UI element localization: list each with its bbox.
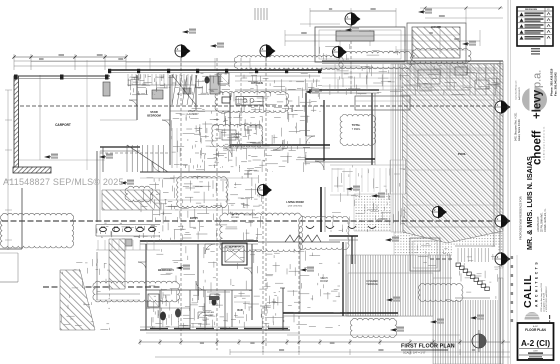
svg-text:BAR: BAR — [237, 309, 242, 312]
detail kitchen — [243, 97, 245, 101]
svg-text:BBQ: BBQ — [374, 195, 379, 198]
kitchen island with cooktop — [236, 97, 263, 106]
svg-text:p.a.: p.a. — [532, 70, 544, 88]
svg-text:(20ft CEILING): (20ft CEILING) — [288, 205, 303, 208]
vertical grid dashed lines — [180, 58, 182, 340]
cloud near entry small — [125, 186, 153, 202]
bottom wall cabinets row — [150, 328, 168, 330]
top bath fixtures — [205, 77, 210, 84]
shower rect — [148, 294, 159, 307]
revision cloud center — [220, 213, 303, 252]
svg-text:a r c h i t e c t u r e + i: a r c h i t e c t u r e + i n t e r i o … — [543, 126, 546, 160]
svg-text:A-2 (CI): A-2 (CI) — [521, 339, 550, 348]
svg-text:TOTAL: TOTAL — [352, 123, 361, 127]
covered terrace decking A — [346, 255, 465, 316]
grid bubble H — [495, 214, 511, 228]
top dimension chain left — [14, 56, 126, 58]
revision table — [517, 7, 553, 46]
svg-text:POOL: POOL — [458, 152, 467, 156]
revision cloud left — [0, 213, 73, 248]
kitchen right extra — [322, 77, 498, 79]
detail utility — [304, 163, 310, 165]
revision cloud kitchen island — [215, 91, 289, 112]
svg-text:CARPORT: CARPORT — [55, 123, 71, 127]
grid bubble G — [495, 100, 511, 114]
revision cloud bottom-left — [93, 281, 180, 302]
svg-text:CLOSET: CLOSET — [130, 77, 139, 79]
family room verticals — [305, 93, 307, 136]
west door rect — [122, 239, 132, 246]
svg-text:REVISIONS: REVISIONS — [525, 9, 537, 11]
bottom dimension chains — [287, 334, 460, 336]
carport left wall — [14, 76, 19, 168]
mech room walls — [280, 287, 285, 289]
detail vanity row — [111, 231, 113, 237]
stair right white backing — [452, 246, 498, 300]
pool steps lines below jacuzzi — [413, 65, 468, 67]
wall B family room — [230, 144, 330, 146]
kitchen top wall — [322, 60, 503, 62]
svg-text:ROOM: ROOM — [320, 280, 327, 283]
sheet box — [518, 323, 554, 360]
title strip separator — [507, 0, 509, 364]
svg-text:A11548827 SEP/MLS© 2025: A11548827 SEP/MLS© 2025 — [3, 177, 124, 187]
svg-text:7 DWG: 7 DWG — [352, 127, 361, 131]
svg-text:DATE: DATE — [533, 350, 538, 353]
svg-text:TERRACE: TERRACE — [366, 283, 378, 286]
grid bubble A — [175, 44, 191, 58]
closet row below vanities — [97, 240, 99, 250]
svg-text:BEDROOM 5: BEDROOM 5 — [158, 268, 174, 272]
carport inner lines — [86, 60, 88, 170]
kitchen sink — [222, 97, 230, 103]
bedroom5 top heavy wall — [140, 240, 258, 242]
hall lines — [140, 177, 258, 179]
revision cloud bottom — [350, 318, 396, 337]
revision cloud pool deck — [340, 114, 376, 145]
svg-text:ELEVATOR: ELEVATOR — [229, 246, 241, 249]
svg-text:SCALE: 1/4" = 1'-0": SCALE: 1/4" = 1'-0" — [403, 351, 426, 355]
pool lap lines — [407, 99, 497, 101]
svg-text:ENTRY: ENTRY — [190, 217, 198, 220]
bbq deck thin verticals — [331, 168, 333, 192]
choeff levy logo circle — [522, 87, 547, 112]
entry hall walls — [169, 75, 171, 165]
small stair top-center — [254, 8, 256, 20]
bath hatch left bottom — [60, 270, 95, 330]
grid bubble C — [345, 12, 361, 26]
suite bath walls — [159, 290, 161, 330]
svg-text:FLOOR PLAN: FLOOR PLAN — [525, 328, 546, 332]
grid bubble E — [258, 184, 273, 197]
svg-text:JACUZZI: JACUZZI — [431, 26, 441, 29]
bath counter — [207, 291, 230, 293]
pool right boundary — [493, 64, 495, 364]
detail closets top — [186, 77, 188, 87]
horizontal dashed match lines — [14, 105, 494, 107]
suite inner walls — [146, 289, 252, 291]
terrace top rect with BBQ — [315, 27, 405, 62]
door swing arcs — [152, 161, 163, 172]
closet shelving lines — [127, 74, 129, 85]
svg-text:CLOSET: CLOSET — [156, 77, 165, 79]
svg-text:www.choefflevy.com: www.choefflevy.com — [516, 80, 518, 100]
carport bottom wall block — [13, 167, 51, 173]
svg-text:AA26001978: AA26001978 — [518, 87, 521, 100]
suite bottom wall — [140, 329, 290, 331]
svg-text:Fax: 305.042.0242: Fax: 305.042.0242 — [554, 72, 558, 96]
door label markers — [44, 155, 54, 158]
svg-text:STAIR: STAIR — [150, 110, 158, 114]
svg-text:KITCHEN: KITCHEN — [251, 81, 263, 85]
stair right detail — [456, 263, 461, 267]
laundry terrace decking — [348, 273, 433, 316]
grid bubble D — [333, 46, 348, 59]
north circle bottom — [472, 334, 486, 348]
detail suite — [283, 320, 285, 322]
pool hatched water — [402, 64, 503, 243]
bar counter — [234, 295, 250, 297]
detail kitchen right — [495, 78, 497, 89]
detail entry — [246, 198, 248, 208]
calil logo semicircle — [525, 312, 540, 319]
grid bubble I — [495, 252, 511, 266]
tiny block below revisions — [531, 48, 540, 49]
revision cloud double oven — [212, 124, 263, 147]
east terrace stripe band — [391, 64, 406, 232]
svg-text:+levy: +levy — [532, 89, 544, 119]
svg-text:CALIL: CALIL — [522, 275, 534, 308]
vanity counter lines — [96, 224, 160, 226]
right top dims — [425, 17, 503, 19]
svg-text:ENTRY: ENTRY — [231, 214, 239, 216]
spa square — [410, 238, 440, 271]
carport columns — [14, 75, 18, 80]
utility cabinets — [171, 128, 173, 168]
wall A below terrace — [309, 89, 379, 91]
closet door rects — [152, 90, 163, 99]
svg-text:ROOM: ROOM — [206, 315, 213, 317]
exclamation marks right of logo — [549, 315, 550, 319]
svg-text:A R C H I T E C T S: A R C H I T E C T S — [535, 262, 539, 307]
left house wall below carport — [21, 188, 23, 249]
svg-text:BEDROOM: BEDROOM — [147, 114, 161, 118]
svg-text:t: 305.667.0021 aa26002107: t: 305.667.0021 aa26002107 — [545, 286, 548, 312]
top dimension chain mid — [126, 61, 250, 63]
bedroom5 left wall — [145, 244, 147, 330]
svg-text:POWDER: POWDER — [204, 312, 214, 314]
carport door rect — [103, 82, 110, 96]
main stair — [126, 145, 128, 172]
elevator box — [222, 243, 247, 265]
pool inner rect — [407, 70, 497, 227]
stair diagonals top band — [172, 75, 177, 105]
jacuzzi top dims — [420, 7, 503, 9]
svg-text:WIC: WIC — [206, 249, 211, 251]
covered terrace decking B — [433, 278, 503, 364]
carport top wall — [14, 75, 110, 77]
detail left bath — [67, 315, 75, 317]
small marks column — [511, 256, 514, 259]
detail bbq deck — [351, 195, 358, 197]
stair wall hatch vertical — [109, 239, 125, 289]
living room west wall — [320, 187, 322, 232]
kitchen island rect — [355, 96, 410, 110]
living room zigzag window — [285, 235, 321, 242]
svg-text:MR. & MRS. LUIS N. ISAIAS: MR. & MRS. LUIS N. ISAIAS — [525, 156, 534, 250]
left vertical dimension chain — [7, 90, 9, 250]
west wall lower stub — [96, 252, 98, 300]
living room south wall — [329, 235, 358, 237]
svg-text:CORAL GABLES, FL: CORAL GABLES, FL — [544, 208, 547, 232]
jacuzzi hatched box — [407, 23, 466, 63]
grid bubble F — [433, 206, 448, 219]
svg-text:LAUNDRY: LAUNDRY — [187, 113, 199, 116]
revision cloud kitchen top — [234, 56, 343, 70]
main house top wall — [108, 69, 322, 71]
calil architects block — [516, 255, 518, 322]
garage angled hatch wall top-left of pool deck — [102, 190, 160, 210]
svg-text:FOYER: FOYER — [231, 217, 239, 219]
family room bottom wall — [305, 158, 375, 160]
toilet bottom-left 2 — [175, 309, 181, 318]
detail right stairs zone — [494, 266, 498, 268]
svg-text:LIVING ROOM: LIVING ROOM — [286, 200, 303, 204]
kitchen far-right cabinets — [469, 64, 471, 95]
svg-text:miami, florida 33138: miami, florida 33138 — [518, 119, 521, 141]
grid bubble B — [260, 44, 276, 58]
top dimension chain right — [310, 10, 396, 12]
bedroom5 right wall — [197, 244, 199, 300]
svg-text:PROPOSED NEW RESIDENCE FOR:: PROPOSED NEW RESIDENCE FOR: — [519, 195, 523, 240]
toilet bottom-left 1 — [160, 312, 166, 321]
sinks row 2 — [306, 226, 314, 229]
svg-text:FIRST FLOOR PLAN: FIRST FLOOR PLAN — [401, 344, 455, 350]
svg-text:OVEN: OVEN — [233, 136, 240, 139]
powder room toilet — [212, 299, 217, 306]
utility top counter — [170, 110, 230, 112]
pool deck dotted paving — [354, 194, 503, 268]
oven island inner marks — [222, 130, 236, 140]
kitchen counter lines — [235, 75, 320, 77]
kitchen right counters — [322, 67, 498, 69]
west interior wall — [96, 151, 98, 222]
vanity sinks row — [100, 227, 107, 231]
mid terrace decking small — [390, 160, 406, 194]
right boundary double wall — [499, 61, 501, 364]
